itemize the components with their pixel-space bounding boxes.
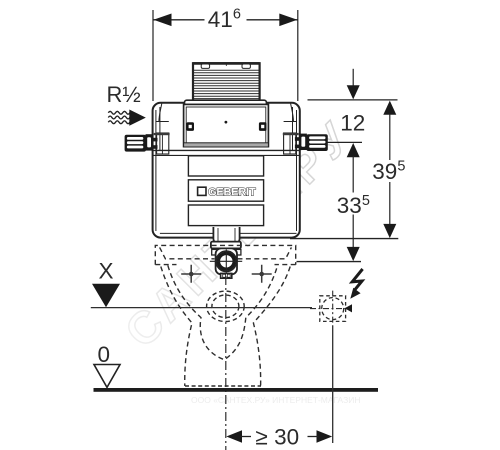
valve foot [221,273,232,278]
pan outlet ellipse inner [212,295,239,318]
pan bowl outer left [161,267,192,387]
datum 0 triangle [94,365,120,388]
pan base line [185,385,261,387]
bracket housing left [157,133,169,154]
dimension >=30 left arrow [226,430,242,443]
svg-text:R½: R½ [107,82,141,107]
access window screw left [186,122,194,131]
protective box outline [193,63,260,100]
fixing cross left [181,265,201,283]
access window inner [186,107,266,144]
electrical connection arrow [345,304,352,312]
datum X level line [91,307,312,309]
floor line [94,388,379,392]
water supply wavy lines [108,111,130,123]
dimension 12 upper arrow [352,69,354,87]
valve shoulders [212,249,217,255]
fixing cross right [252,265,272,283]
pan bowl inner curve and trapway [168,265,278,359]
lightning bolt [350,269,362,299]
pan center line [225,276,227,450]
line from electrical box to floor [332,326,334,443]
tank inner wall right [293,107,297,231]
svg-text:GEBERIT: GEBERIT [208,187,256,199]
front panel rect 1 [188,156,263,176]
tank bottom inner line [160,232,297,234]
tank seam line 1 [153,149,300,151]
reference line tank top (A) [308,99,398,101]
svg-text:0: 0 [98,342,111,367]
geberit logo box [198,187,206,195]
geberit panel [188,180,263,201]
dimension >=30 right arrow [317,430,333,443]
reference line outlet level [297,261,362,263]
valve ring outer [216,251,236,271]
protective box notch left [201,64,209,68]
right wall bracket [295,134,328,151]
WC pan dashed outline [155,245,295,386]
flush bend flange [211,242,241,249]
flush bend collar [213,227,239,243]
cistern tank outline [153,103,300,238]
pan shelf outer box [155,245,295,264]
electrical connection dashed square [320,296,346,322]
protective box center tick [225,63,227,66]
reference line bracket level (B) [328,141,363,143]
dimension 41.6 arrow right [279,14,297,27]
svg-text:X: X [99,258,114,283]
tank inner wall left [156,107,160,231]
protective box notch right [242,64,250,68]
dimension 39.5 line [383,101,396,115]
datum X triangle [92,284,120,307]
tank seam line 2 [153,154,300,156]
valve body [216,248,237,274]
electrical connection dashed circle [322,298,344,320]
pan bowl outer right [253,267,290,387]
pan shelf inner line [160,247,292,258]
valve ring dark [218,253,234,269]
protective box hatch [194,70,259,98]
valve crosshair [210,249,242,272]
pan outlet ellipse outer [207,291,245,321]
electrical connection crosshair [310,291,349,326]
dimension 41.6 extension line left [152,10,154,101]
tank inner corner seam right [284,104,297,122]
svg-text:ООО «САНТЕХ.РУ» ИНТЕРНЕТ-МАГАЗ: ООО «САНТЕХ.РУ» ИНТЕРНЕТ-МАГАЗИН [191,395,361,405]
reference line tank bottom [290,238,398,240]
svg-text:12: 12 [340,111,365,136]
access window center dot [225,121,228,124]
front panel rect 3 [188,205,263,226]
dimension 41.6 extension line right [297,10,299,101]
access window bottom band [184,143,269,147]
bracket housing right [284,133,296,154]
water supply arrow [129,110,146,126]
top flange under protective box [185,100,267,105]
left wall bracket [125,134,158,151]
access window outer [184,104,269,146]
access window screw right [259,122,267,131]
dimension 41.6 line [153,19,205,21]
dimension 41.6 arrow left [154,14,172,27]
tank inner corner seam left [156,104,169,122]
dimension 33.5 line [347,143,360,157]
svg-text:≥ 30: ≥ 30 [256,425,300,450]
